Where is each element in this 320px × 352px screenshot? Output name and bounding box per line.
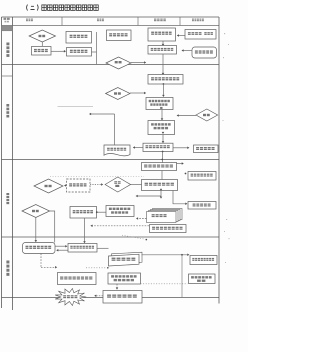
dashed wire y225.8 — [92, 225, 149, 227]
R5 text — [151, 32, 171, 35]
RQ text row2 — [114, 279, 134, 281]
process R3 编制审计方案 — [67, 48, 92, 57]
lane 3 label 审计实施 — [6, 193, 9, 204]
process RY 考核意见表 — [194, 145, 219, 153]
header divider col B/C — [137, 17, 139, 26]
3d box RR3 审计意见书 — [109, 252, 143, 266]
junction dot right of RG — [96, 211, 98, 213]
wire R3 right stub — [92, 51, 97, 53]
wire R6 to R5 — [178, 35, 185, 37]
lane divider 3 — [2, 236, 220, 238]
wire RC to RD — [162, 135, 164, 143]
RC text row2 — [154, 127, 168, 129]
wire RO to RR2 lower — [57, 249, 68, 251]
wire D7 to RI — [131, 184, 142, 186]
RO text — [70, 246, 94, 249]
wire down to DOC1 — [114, 114, 116, 145]
junction dot under RA — [163, 83, 165, 85]
RI text — [145, 183, 174, 186]
RL text — [193, 204, 211, 207]
RH text row2 — [111, 211, 128, 213]
arrowhead into RW — [187, 254, 189, 257]
RB text row1 — [149, 100, 170, 102]
process RQ 上级复核审定稿 — [108, 273, 141, 284]
process RI 审计底稿二审 — [142, 180, 178, 191]
arrowhead into RR2 top — [35, 240, 38, 242]
table top border — [2, 16, 220, 18]
dashed wire RQ down to RS — [116, 284, 118, 288]
arrowhead into DOC1 — [133, 146, 135, 149]
dashed wire stack to RH — [138, 218, 147, 220]
wire left from corner — [91, 113, 115, 115]
process RE 审计底稿复核 — [142, 163, 177, 171]
dotted wire RQ to RX — [141, 283, 188, 285]
process RA 编制审计实施方案 — [148, 75, 183, 85]
down arrowhead below RI — [160, 197, 163, 199]
process RD 审计底稿一审 — [143, 143, 173, 151]
process RB 审计重点难点问题 — [146, 98, 173, 110]
R1 text — [34, 49, 48, 52]
document DOC1 审计工作底稿 — [104, 145, 130, 156]
wire RB to RC — [161, 110, 163, 120]
arrowhead into RH right — [136, 217, 138, 220]
wire down from junction to bottom border — [181, 255, 183, 297]
wire RE rightward — [177, 163, 183, 165]
arrowhead into RB — [162, 95, 165, 97]
R4 text — [109, 33, 127, 36]
corner cell text row2 — [5, 21, 9, 23]
arrowhead into R5 — [177, 34, 179, 37]
RM text — [152, 227, 182, 230]
RB text row2 — [150, 103, 167, 105]
junction dot left of RJ — [185, 173, 187, 175]
R7 text — [151, 48, 174, 51]
RQ text row1 — [111, 275, 136, 277]
wire RG to RH — [97, 211, 106, 213]
grey stub line y106.5 — [58, 106, 94, 108]
title （二）审计部审计作业流程图 — [27, 5, 99, 11]
wire leftward y196 — [137, 195, 161, 197]
process R5 发审计通知书 — [148, 28, 176, 41]
wire RG down to RO — [84, 218, 86, 242]
dashed box RF 复核意见 — [67, 179, 91, 192]
wire RD down to RE — [162, 152, 164, 163]
wire RI to RL — [173, 191, 186, 204]
arrowhead into RO top — [83, 241, 86, 243]
arrowhead into R7 — [162, 44, 165, 46]
RR3 text — [112, 258, 136, 261]
arrowhead from D3 — [144, 92, 146, 95]
D3 text — [114, 92, 121, 94]
RJ text — [191, 174, 213, 177]
D4 text — [203, 114, 210, 116]
lane 2 label 审计准备 — [6, 104, 9, 117]
label column row line 1 — [2, 75, 13, 77]
grey cell top of label column — [2, 26, 13, 31]
wire RO to RR3 — [97, 247, 109, 249]
wire RD to DOC1 — [134, 147, 143, 149]
wire R1 to R3 — [51, 50, 65, 52]
wire RA to RB — [162, 84, 164, 96]
RY text — [196, 147, 214, 150]
RF text — [69, 183, 86, 186]
decision D1 立项 — [29, 30, 55, 42]
SB text — [63, 295, 77, 298]
starburst SB — [55, 288, 86, 305]
wire D4 leftward — [178, 115, 196, 117]
RH text row1 — [109, 208, 130, 210]
process RH 审计复核二审 — [106, 206, 134, 217]
header col B 审计部 — [97, 19, 104, 22]
wire D2 rightward — [131, 62, 145, 64]
lane 1 label 审计立项 — [6, 43, 9, 57]
RX text row2 — [197, 280, 205, 282]
wire D6 down to RR2 — [35, 218, 37, 242]
wire R8 leftward — [183, 50, 192, 52]
RC text row1 — [151, 123, 171, 125]
header divider col A/B — [61, 17, 63, 26]
RE text — [144, 165, 173, 168]
arrowhead from RE — [182, 162, 184, 165]
arrowhead into starburst — [94, 295, 96, 298]
process R1 立项建议书 — [32, 47, 52, 56]
process RG 审计底稿汇总 — [70, 207, 97, 219]
decision D6 通过 — [22, 205, 50, 218]
arrowhead into RO left — [65, 245, 67, 248]
wire R7 down to RA — [162, 54, 164, 74]
RB text 等 — [160, 107, 162, 109]
wire down from RI — [160, 190, 162, 197]
arrowhead into RC — [161, 118, 164, 120]
arrowhead left at y114 — [89, 113, 91, 116]
rounded R8 审计通知书 — [192, 47, 217, 58]
RS text — [107, 295, 137, 298]
header row bottom line — [2, 25, 220, 27]
process R4 呈上级审批 — [107, 30, 132, 41]
RR2 text — [26, 246, 52, 249]
dashed wire RR2 down — [40, 254, 42, 268]
D2 text 审批 — [115, 61, 122, 63]
dotted wire RF to D7 — [90, 184, 102, 186]
dashed wire RS to starburst — [96, 295, 104, 297]
process RS 审计报告书 — [103, 291, 142, 304]
arrowhead into RA — [162, 73, 165, 75]
dotted slanted line — [122, 235, 145, 239]
dot end of dotted line — [146, 239, 148, 241]
wire R5 to R7 — [162, 41, 164, 45]
long wire RR3 to RW — [142, 254, 189, 256]
decision D4 满意 — [196, 109, 218, 121]
D7 text row1 — [114, 181, 120, 184]
dotted line y176.5 — [50, 176, 144, 178]
wire D1 to R1 — [41, 42, 43, 46]
arrowhead into RS top — [116, 288, 119, 290]
D7 text row2 — [115, 185, 119, 187]
R6 text part2 书回执 — [204, 32, 213, 35]
wire RD to RY — [173, 147, 188, 149]
wire RR2 to RO upper — [55, 245, 66, 247]
process RX 上级审定稿 — [189, 274, 216, 284]
R2 text — [70, 35, 88, 38]
wire D3 rightward — [130, 92, 145, 94]
lane divider 2 — [2, 159, 220, 161]
small down arrow inside RC bottom — [162, 132, 165, 134]
decision D5 同意 — [34, 179, 63, 193]
R6 text part1 审计通知 — [188, 32, 202, 35]
junction dot on lane divider — [161, 159, 163, 161]
arrowhead into D5 right vertex — [64, 184, 66, 187]
arrowhead left y225.8 — [90, 225, 92, 228]
paper stack STACK1 审计底稿 — [147, 209, 183, 223]
header col D 被审计单位 — [192, 19, 204, 22]
table left border — [1, 17, 3, 308]
dotted wire to RR3 corner — [86, 267, 106, 269]
DOC1 text — [107, 148, 126, 151]
arrowhead into RD — [162, 141, 165, 143]
RW text — [192, 258, 214, 261]
process RO 审计报告征求意见稿 — [68, 244, 97, 253]
R3 text — [70, 50, 87, 53]
STACK1 text — [152, 214, 167, 217]
arrowhead into R3 — [64, 50, 66, 53]
table bottom border — [2, 297, 220, 299]
process RN 审计报告送审稿 — [58, 273, 97, 285]
D6 text — [32, 210, 39, 212]
RD text — [146, 145, 170, 148]
decision D7 复核 — [105, 177, 130, 192]
wire RE down to RI — [161, 171, 163, 180]
decision D2 审批 — [106, 57, 131, 69]
arrowhead into RL — [185, 203, 187, 206]
dot end of dotted wire — [107, 267, 109, 269]
arrowhead into RR2 right — [56, 249, 58, 252]
header col A — [26, 19, 33, 22]
junction dot in RI bottom — [160, 189, 162, 191]
rounded RR2 被审计单位部门 — [23, 243, 56, 254]
vertical wire x96.5 — [96, 32, 98, 64]
D5 text — [45, 185, 52, 187]
scan specks — [223, 33, 230, 263]
process RM 审计复核工作底稿 — [150, 225, 187, 233]
process RC 下发通知单底稿 — [148, 121, 175, 135]
lane 4 label 审计终结 — [6, 261, 9, 276]
arrowhead from D2 — [144, 61, 146, 64]
arrowhead dashed into RN — [55, 266, 57, 269]
corner cell text row1 — [4, 18, 10, 20]
process RL 底稿归档 — [188, 202, 216, 210]
arrowhead into RY — [187, 147, 189, 150]
RG text — [73, 210, 93, 213]
junction dot under RD — [162, 151, 164, 153]
header col C 审计人员 — [154, 19, 166, 22]
dashed wire to RN — [41, 266, 56, 268]
table right border — [218, 17, 220, 304]
process R6 审计通知书回执 — [185, 30, 216, 40]
RX text row1 — [191, 276, 212, 278]
lane label column divider — [12, 17, 14, 310]
process R2 年度审计计划 — [66, 32, 92, 44]
junction dot on RR3-RW wire — [181, 254, 183, 256]
RA text — [151, 77, 179, 80]
arrowhead left y196 — [136, 195, 138, 198]
arrowhead R8 to R7 — [182, 49, 184, 52]
wire D6 right down to RR2 — [50, 211, 55, 243]
header divider col C/D — [179, 17, 181, 26]
decision D3 一审 — [106, 88, 130, 100]
arrowhead into D7 — [101, 183, 103, 186]
RN text — [60, 277, 92, 280]
arrowhead from D4 — [177, 114, 179, 117]
process RJ 一审底稿存档 — [188, 172, 216, 181]
D1 text 立项 — [39, 35, 46, 37]
lane divider 1 — [2, 64, 220, 66]
process RW 征求被审计单位意见 — [190, 256, 217, 265]
R8 text — [195, 50, 213, 53]
process R7 审计通知书存根 — [148, 46, 177, 55]
